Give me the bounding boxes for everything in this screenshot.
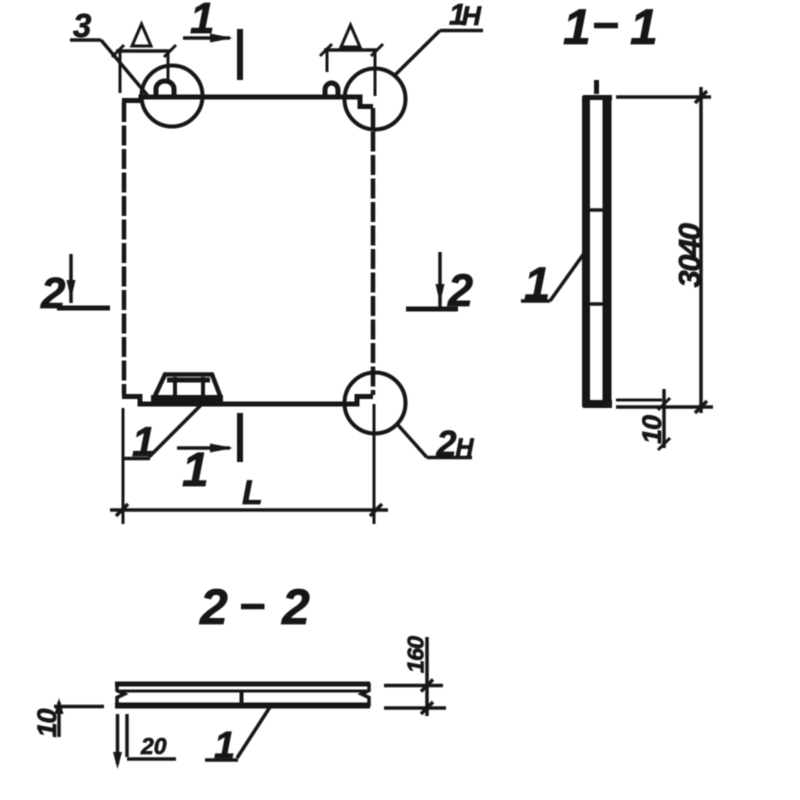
svg-text:1: 1 bbox=[190, 0, 214, 43]
svg-text:L: L bbox=[242, 474, 263, 512]
svg-text:10: 10 bbox=[637, 415, 667, 444]
svg-text:1: 1 bbox=[563, 0, 591, 55]
svg-text:20: 20 bbox=[140, 733, 167, 759]
svg-text:3040: 3040 bbox=[672, 223, 707, 287]
svg-text:160: 160 bbox=[403, 636, 429, 673]
svg-text:2: 2 bbox=[436, 423, 457, 464]
svg-text:1: 1 bbox=[182, 444, 209, 497]
svg-text:2: 2 bbox=[199, 579, 228, 635]
svg-text:1: 1 bbox=[524, 257, 550, 310]
svg-text:3: 3 bbox=[73, 7, 91, 44]
svg-text:2: 2 bbox=[447, 265, 473, 316]
svg-text:1: 1 bbox=[214, 725, 235, 767]
svg-text:1: 1 bbox=[132, 418, 155, 465]
svg-text:Н: Н bbox=[462, 1, 482, 31]
svg-text:Н: Н bbox=[456, 434, 475, 462]
svg-text:1: 1 bbox=[630, 0, 658, 55]
svg-text:2: 2 bbox=[281, 579, 310, 635]
svg-text:2: 2 bbox=[40, 269, 66, 318]
svg-text:10: 10 bbox=[32, 709, 62, 738]
